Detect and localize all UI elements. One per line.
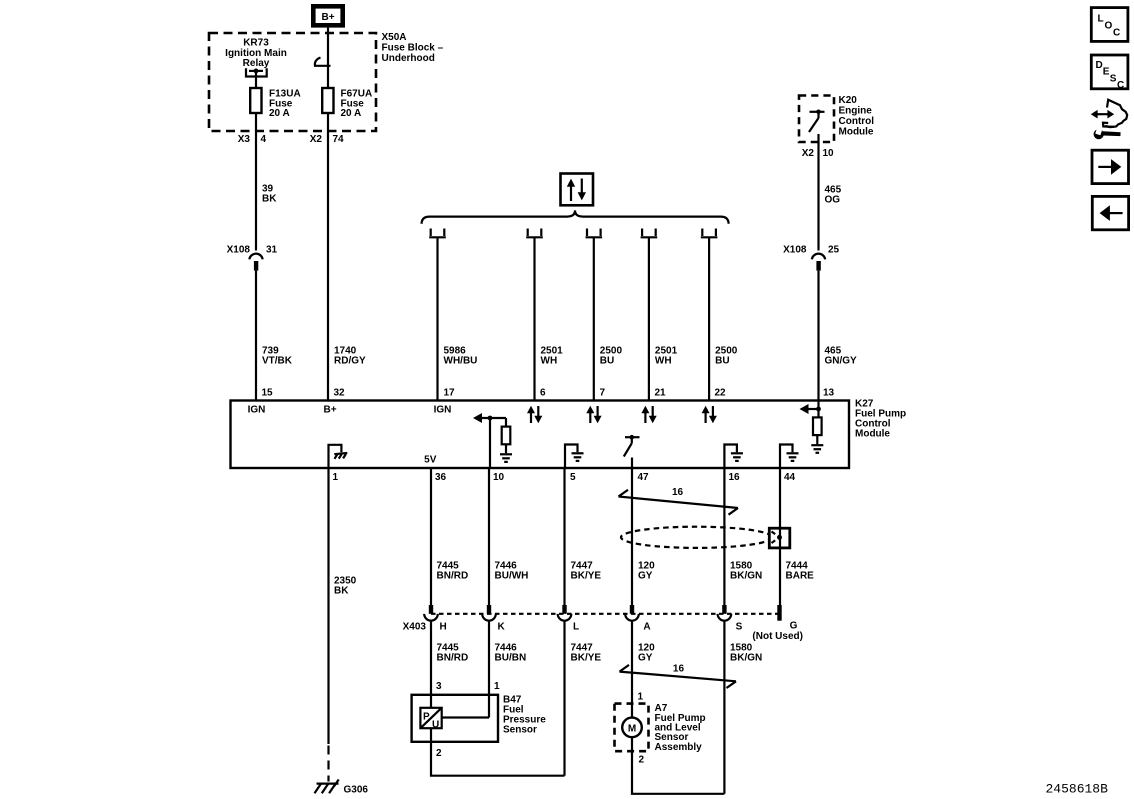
- wire 2501 WH to module pin 6: [533, 237, 535, 400]
- shield drain termination box on wire 44: [769, 528, 790, 548]
- svg-text:Sensor: Sensor: [503, 724, 537, 735]
- svg-text:IGN: IGN: [248, 404, 266, 415]
- svg-text:C: C: [1113, 28, 1120, 39]
- svg-text:WH: WH: [541, 356, 558, 367]
- svg-text:S: S: [736, 621, 743, 632]
- X403 terminal K: [482, 605, 505, 632]
- fuse F13UA: [250, 88, 261, 113]
- svg-text:KR73: KR73: [243, 37, 269, 48]
- svg-text:25: 25: [828, 245, 840, 256]
- svg-text:BN/RD: BN/RD: [437, 570, 469, 581]
- svg-text:IGN: IGN: [434, 404, 452, 415]
- svg-text:20 A: 20 A: [341, 108, 362, 119]
- wire pin 44 to X403 G: [779, 468, 781, 605]
- wire pin 5 to X403 L: [563, 468, 565, 605]
- wire F13UA down to connector X108: [255, 113, 257, 251]
- svg-text:3: 3: [436, 681, 442, 692]
- svg-text:K20: K20: [839, 95, 858, 106]
- wire 2500 BU to module pin 22: [708, 237, 710, 400]
- wire label 465 GN/GY: [825, 346, 858, 367]
- wire X108-25 down to module pin 13: [817, 271, 819, 401]
- icon LOC button: [1091, 8, 1128, 42]
- svg-text:47: 47: [638, 472, 650, 483]
- pin label X2 74: [310, 134, 344, 145]
- svg-text:Module: Module: [839, 127, 874, 138]
- svg-text:E: E: [1103, 67, 1110, 78]
- pin label X3 4: [238, 134, 267, 145]
- wire X108-31 down to module pin 15: [255, 271, 257, 401]
- wire label 7447 BK/YE: [571, 560, 602, 581]
- wire B47 pin 3 through transducer: [430, 695, 432, 708]
- ground G306: [315, 746, 369, 796]
- svg-text:L: L: [573, 621, 579, 632]
- splice weld symbol on B+ wire: [314, 58, 331, 67]
- wire label 739 VT/BK: [262, 346, 293, 367]
- wire X403 A down to A7 pin 1: [631, 621, 633, 718]
- svg-text:22: 22: [715, 388, 727, 399]
- svg-text:B+: B+: [323, 404, 336, 415]
- bidirectional arrows pin 7: [586, 406, 601, 423]
- icon forward arrow button: [1092, 150, 1129, 183]
- wire relay to fuse F13UA: [255, 71, 257, 88]
- bidirectional arrows pin 6: [527, 406, 542, 423]
- label B47 Fuel Pressure Sensor: [503, 694, 546, 735]
- svg-text:X2: X2: [802, 148, 815, 159]
- svg-text:Assembly: Assembly: [655, 742, 703, 753]
- bidirectional arrows pin 21: [641, 406, 656, 423]
- svg-text:6: 6: [540, 388, 546, 399]
- pin 5 internal ground: [565, 445, 584, 469]
- wire pin 10 to X403 K: [488, 468, 490, 605]
- wire pin 16 to X403 S: [723, 468, 725, 605]
- svg-text:7: 7: [600, 388, 606, 399]
- svg-text:(Not Used): (Not Used): [752, 631, 803, 642]
- svg-text:16: 16: [673, 663, 685, 674]
- svg-text:D: D: [1096, 60, 1103, 71]
- pigtail connector on wire 2501 second: [641, 229, 658, 238]
- svg-text:10: 10: [823, 148, 835, 159]
- svg-text:Fuse Block –: Fuse Block –: [382, 42, 444, 53]
- pin 47 internal driver switch: [624, 435, 640, 468]
- X403 terminal S: [718, 605, 743, 632]
- label A7 Fuel Pump and Level Sensor Assembly: [655, 703, 706, 753]
- svg-text:OG: OG: [825, 195, 841, 206]
- svg-text:Relay: Relay: [243, 58, 270, 69]
- svg-text:36: 36: [435, 472, 447, 483]
- svg-text:X108: X108: [227, 245, 251, 256]
- wire pin 36 to X403 H: [430, 468, 432, 605]
- wire label 465 OG: [825, 185, 842, 206]
- svg-text:M: M: [628, 723, 636, 734]
- wire label 2500 BU: [600, 346, 623, 367]
- svg-text:WH/BU: WH/BU: [444, 356, 478, 367]
- wire K20 down to connector X108: [817, 134, 819, 251]
- svg-text:Underhood: Underhood: [382, 53, 435, 64]
- svg-text:H: H: [440, 621, 447, 632]
- pigtail connector on wire 5986: [429, 229, 446, 238]
- svg-text:10: 10: [493, 472, 505, 483]
- svg-text:BU/BN: BU/BN: [495, 652, 527, 663]
- wire label 7446 BU/BN lower: [495, 642, 527, 663]
- svg-text:74: 74: [333, 134, 345, 145]
- svg-text:X108: X108: [783, 245, 807, 256]
- svg-text:BU: BU: [715, 356, 729, 367]
- svg-text:BK: BK: [262, 194, 277, 205]
- label KR73 Ignition Main Relay: [225, 37, 287, 69]
- svg-text:5V: 5V: [424, 455, 437, 466]
- wire F67UA down to module pin 32: [327, 113, 329, 401]
- K20 internal driver switch: [809, 110, 825, 133]
- svg-text:G: G: [790, 621, 798, 632]
- X403 terminal A: [625, 605, 650, 632]
- svg-text:X403: X403: [403, 621, 427, 632]
- wire B+ to fuse F67UA: [327, 28, 329, 88]
- svg-text:VT/BK: VT/BK: [262, 356, 293, 367]
- wire X403 H down to B47 pin 3: [430, 621, 432, 695]
- X403 terminal L: [558, 605, 579, 632]
- svg-text:U: U: [432, 720, 439, 731]
- svg-text:4: 4: [261, 134, 267, 145]
- relay KR73 contact symbol: [246, 68, 267, 76]
- svg-text:B+: B+: [321, 12, 334, 23]
- svg-text:L: L: [1098, 14, 1104, 25]
- svg-text:1: 1: [494, 681, 500, 692]
- wire label 120 GY lower: [638, 642, 655, 663]
- svg-text:20 A: 20 A: [269, 108, 290, 119]
- motor M fuel pump: [622, 718, 642, 738]
- pigtail connector on wire 2500: [586, 229, 603, 238]
- svg-text:32: 32: [334, 388, 346, 399]
- label K27 Fuel Pump Control Module: [855, 399, 906, 440]
- wire label 1740 RD/GY: [334, 346, 366, 367]
- wire label 2501 WH: [541, 346, 564, 367]
- pin 13 internal pullup resistor to ground: [800, 401, 824, 453]
- svg-text:2458618B: 2458618B: [1046, 781, 1109, 796]
- wire A7 pin 2 return to 1580: [632, 737, 724, 794]
- pin 16 internal ground: [724, 445, 743, 469]
- wire label 2500 BU second: [715, 346, 738, 367]
- wire 44 through shield box: [779, 528, 781, 548]
- svg-text:16: 16: [672, 487, 684, 498]
- wire label 2501 WH second: [655, 346, 678, 367]
- fuse F67UA: [322, 88, 333, 113]
- wire X403 L down to bottom jog: [563, 621, 565, 776]
- svg-text:1: 1: [333, 472, 339, 483]
- wire label 39 BK: [262, 184, 277, 205]
- connector X108 pin 31: [227, 245, 278, 271]
- label K20 Engine Control Module: [839, 95, 875, 138]
- pin 1 internal chassis ground: [329, 445, 348, 468]
- svg-text:2: 2: [436, 748, 442, 759]
- wire label 7445 BN/RD: [437, 560, 469, 581]
- wire label 1580 BK/GN: [730, 560, 762, 581]
- svg-text:13: 13: [823, 388, 835, 399]
- svg-text:5: 5: [570, 472, 576, 483]
- svg-text:16: 16: [729, 472, 741, 483]
- wire label 1580 BK/GN lower: [730, 642, 762, 663]
- wire X403 K down to B47 pin 1: [488, 621, 490, 718]
- svg-text:RD/GY: RD/GY: [334, 356, 366, 367]
- svg-text:BK: BK: [334, 585, 349, 596]
- svg-text:BK/YE: BK/YE: [571, 570, 602, 581]
- brace over serial data wires: [422, 210, 729, 223]
- svg-text:K: K: [498, 621, 506, 632]
- sensor B47 Fuel Pressure Sensor box: [412, 695, 498, 742]
- svg-text:BU/WH: BU/WH: [495, 570, 529, 581]
- icon vehicle data exchange with wrench: [1091, 100, 1127, 140]
- shield ellipse around pump wires: [621, 527, 772, 548]
- svg-text:BK/GN: BK/GN: [730, 652, 762, 663]
- svg-text:WH: WH: [655, 356, 672, 367]
- pigtail connector on wire 2500 second: [701, 229, 718, 238]
- wire pin 47 to X403 A: [631, 468, 633, 605]
- wire label 5986 WH/BU: [444, 346, 478, 367]
- svg-text:BU: BU: [600, 356, 614, 367]
- gauge marker 16 upper: [619, 487, 739, 515]
- svg-text:P: P: [423, 712, 430, 723]
- svg-text:21: 21: [655, 388, 667, 399]
- svg-text:Module: Module: [855, 429, 890, 440]
- wire label 7445 BN/RD lower: [437, 642, 469, 663]
- wire B47 pin 2 low reference return: [431, 742, 565, 776]
- label F67UA Fuse 20 A: [341, 88, 373, 119]
- icon back arrow button: [1092, 196, 1128, 229]
- pigtail connector on wire 2501: [526, 229, 543, 238]
- gauge marker 16 lower: [620, 663, 737, 688]
- B47 internal pressure transducer P/U: [420, 708, 441, 731]
- wire label 2350 BK: [334, 575, 357, 596]
- svg-text:44: 44: [784, 472, 796, 483]
- svg-text:GN/GY: GN/GY: [825, 356, 858, 367]
- svg-text:17: 17: [444, 388, 456, 399]
- wire pin 1 to G306: [327, 468, 329, 744]
- svg-text:Engine: Engine: [839, 106, 873, 117]
- svg-text:2: 2: [639, 754, 645, 765]
- svg-text:1: 1: [638, 691, 644, 702]
- wire label 7447 BK/YE lower: [571, 642, 602, 663]
- svg-text:X2: X2: [310, 134, 323, 145]
- icon DESC button: [1091, 55, 1128, 91]
- svg-text:15: 15: [262, 388, 274, 399]
- wire 2500 BU to module pin 7: [593, 237, 595, 400]
- pump A7 dashed box: [615, 704, 649, 752]
- connector X403 dashed line: [431, 613, 780, 615]
- svg-text:X3: X3: [238, 134, 251, 145]
- label X50A Fuse Block - Underhood: [382, 32, 444, 64]
- svg-text:C: C: [1117, 80, 1124, 91]
- serial data up/down arrow box: [561, 174, 594, 206]
- wire label 7444 BARE: [786, 560, 815, 581]
- svg-text:BK/YE: BK/YE: [571, 652, 602, 663]
- svg-text:BARE: BARE: [786, 570, 815, 581]
- svg-text:BN/RD: BN/RD: [437, 652, 469, 663]
- fuse block X50A dashed box: [209, 33, 376, 131]
- module K20 dashed box: [799, 96, 834, 143]
- bidirectional arrows pin 22: [702, 406, 717, 423]
- svg-text:BK/GN: BK/GN: [730, 570, 762, 581]
- svg-text:Control: Control: [839, 116, 875, 127]
- module K27 Fuel Pump Control Module box: [231, 401, 850, 469]
- wire 2501 WH to module pin 21: [648, 237, 650, 400]
- wire X403 S down to bottom jog: [723, 621, 725, 794]
- wire label 7446 BU/WH: [495, 560, 529, 581]
- svg-text:X50A: X50A: [382, 32, 407, 43]
- pin label X2 10: [802, 148, 834, 159]
- wire label 120 GY: [638, 560, 655, 581]
- X403 terminal G not used: [752, 605, 803, 642]
- X403 terminal H: [424, 605, 447, 632]
- svg-text:GY: GY: [638, 570, 653, 581]
- svg-text:G306: G306: [344, 784, 369, 795]
- svg-text:GY: GY: [638, 652, 653, 663]
- svg-text:A: A: [643, 621, 650, 632]
- battery feed B+ symbol: [313, 6, 342, 25]
- wire transducer to B47 pin 2: [430, 728, 432, 742]
- wire 5986 WH/BU to module pin 17: [436, 237, 438, 400]
- pin 44 internal ground: [780, 445, 799, 469]
- connector X108 pin 25: [783, 245, 839, 271]
- svg-text:O: O: [1105, 21, 1113, 32]
- B47 internal signal wire pin 1 to transducer: [442, 716, 489, 718]
- label F13UA Fuse 20 A: [269, 88, 301, 119]
- svg-text:31: 31: [266, 245, 278, 256]
- svg-text:S: S: [1110, 73, 1117, 84]
- pin 10 internal reference with resistor to ground: [473, 413, 512, 468]
